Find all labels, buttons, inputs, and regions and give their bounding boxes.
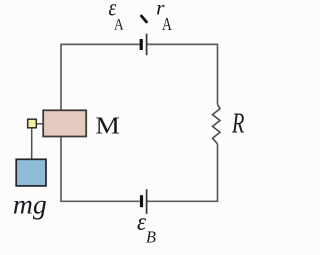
label epsilon A: emf of battery A bbox=[109, 0, 117, 21]
label mg: weight of hanging mass bbox=[13, 189, 47, 220]
label subscript B of emf bbox=[146, 227, 156, 246]
string from hook down to mass bbox=[31, 128, 33, 159]
wire right-bottom: from resistor down to bottom-right corner and left to battery B bbox=[147, 144, 218, 202]
svg-text:B: B bbox=[146, 227, 156, 246]
svg-text:A: A bbox=[162, 15, 172, 34]
pulley hook: small yellow square bbox=[28, 119, 37, 128]
mass block mg: blue square bbox=[16, 159, 46, 186]
label epsilon B: emf of battery B bbox=[137, 209, 147, 236]
svg-text:R: R bbox=[231, 108, 244, 139]
label subscript A of internal resistance bbox=[162, 15, 172, 34]
battery B thick short plate bbox=[140, 195, 143, 207]
svg-text:ε: ε bbox=[137, 209, 147, 236]
svg-text:A: A bbox=[114, 16, 124, 34]
svg-text:M: M bbox=[95, 112, 120, 139]
battery B thin long plate bbox=[146, 189, 148, 214]
battery A thick short plate bbox=[140, 39, 143, 50]
svg-text:mg: mg bbox=[13, 189, 47, 220]
resistor R zigzag bbox=[213, 104, 221, 144]
label subscript A of emf bbox=[114, 16, 124, 34]
connector rod from yellow hook to motor bbox=[37, 123, 44, 125]
motor M box bbox=[43, 110, 86, 136]
wire top-left: from motor top up and right to battery A negative plate bbox=[61, 44, 140, 109]
label R: resistor value bbox=[231, 108, 244, 139]
tick mark between epsilon A and r A bbox=[141, 16, 146, 22]
wire top-right: from battery A positive plate to top-right corner down to resistor bbox=[147, 44, 218, 104]
label r A: internal resistance of battery A bbox=[156, 0, 165, 19]
wire bottom-left: from battery B to bottom-left corner and up to motor bottom bbox=[61, 137, 140, 201]
battery A thin long plate bbox=[146, 34, 148, 56]
label M: motor bbox=[95, 112, 120, 139]
